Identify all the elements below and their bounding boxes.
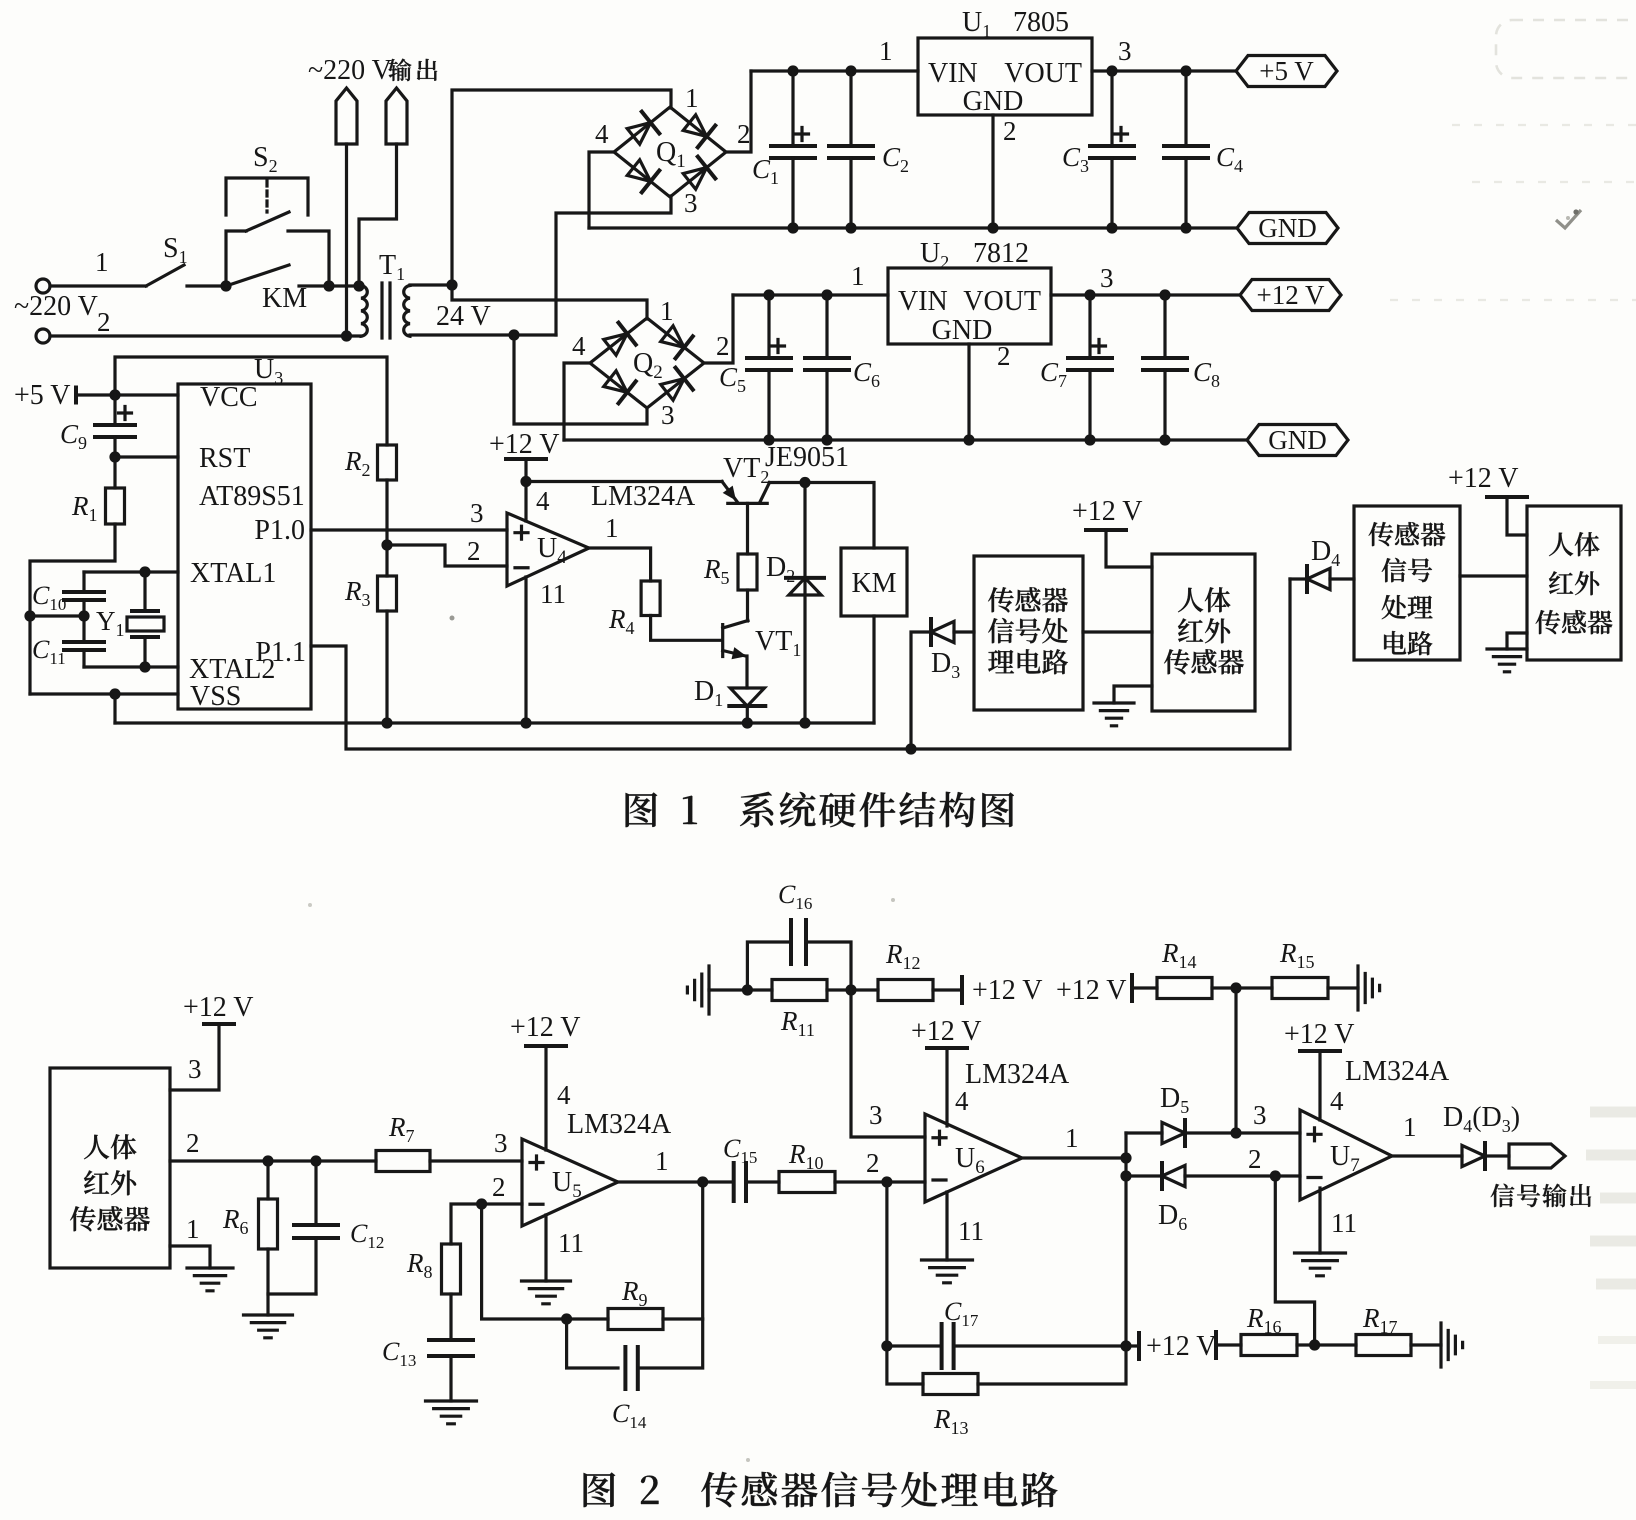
node VSS <box>109 688 120 699</box>
label pin2 U7 <box>1248 1144 1262 1174</box>
wire line2 to T1 primary <box>50 334 361 337</box>
label Y1 <box>96 606 125 640</box>
node D6 branch <box>1120 1170 1131 1181</box>
svg-text:11: 11 <box>1331 1208 1357 1238</box>
label pin3 U7 <box>1253 1100 1267 1130</box>
terminal circle 1 (~220 V line 1) <box>36 279 50 293</box>
label C2 <box>882 142 909 176</box>
diode D4(D3) output <box>1462 1143 1485 1169</box>
plug terminal 1 (~220 V output) <box>336 88 357 144</box>
wire plug2 lead <box>359 144 397 286</box>
switch S1 <box>146 233 188 286</box>
Q1 pin labels <box>595 83 751 218</box>
label LM324A U5 <box>567 1109 672 1140</box>
svg-text:GND: GND <box>1268 425 1327 455</box>
label C10 <box>32 581 66 614</box>
wire C15 to R10 <box>746 1180 779 1183</box>
wire R2 to R3 <box>385 480 388 576</box>
label D4(D3) <box>1443 1102 1520 1136</box>
label C4 <box>1216 142 1243 176</box>
wire R15 to ground <box>1328 986 1358 989</box>
resistor R8 <box>442 1244 461 1294</box>
node U5 output <box>697 1176 708 1187</box>
node R9/C14 left <box>561 1313 572 1324</box>
label C17 <box>944 1297 979 1330</box>
wire to +12V right of C17 <box>1126 1333 1139 1359</box>
wire U4 output <box>589 548 651 581</box>
node D1 gnd <box>742 717 753 728</box>
wire divider to D5 node <box>1234 988 1237 1133</box>
node D5/R14/R15 <box>1230 1127 1241 1138</box>
svg-text:3: 3 <box>494 1128 508 1158</box>
wire D6 to pin2 U7 <box>1185 1174 1300 1177</box>
svg-text:VOUT: VOUT <box>1004 58 1082 89</box>
svg-text:2: 2 <box>467 536 481 566</box>
node C8 top <box>1159 289 1170 300</box>
+12V supply for U4/VT2 <box>489 429 560 460</box>
wire plug1 lead <box>345 144 348 336</box>
svg-text:3: 3 <box>188 1054 202 1084</box>
switch S2 blade <box>246 212 289 231</box>
svg-text:2: 2 <box>866 1148 880 1178</box>
node C16/R11 left <box>742 984 753 995</box>
node C17/R13 pin2 vertical <box>881 1340 892 1351</box>
label pin2 U1 <box>1003 116 1017 146</box>
wire XTAL1 line <box>84 570 178 573</box>
capacitor C17 <box>887 1324 1126 1368</box>
capacitor C11 <box>64 642 104 667</box>
wire U1 gnd pin2 <box>991 115 994 228</box>
resistor R13 <box>923 1374 978 1395</box>
svg-text:+5 V: +5 V <box>1259 56 1314 86</box>
svg-text:VSS: VSS <box>190 681 241 712</box>
wire KM contact to T1 <box>299 284 363 287</box>
label R12 <box>885 939 921 973</box>
capacitor C5 <box>747 295 791 440</box>
label pin1 U6 <box>1065 1123 1079 1153</box>
vin rail row1 <box>751 69 918 72</box>
svg-text:+12 V: +12 V <box>1257 280 1325 310</box>
svg-text:+12 V: +12 V <box>1146 1331 1217 1362</box>
label KM <box>262 283 307 314</box>
label pin2 U2 <box>997 341 1011 371</box>
node R2/R3 to pin2 <box>381 539 392 550</box>
ground sensor B <box>1094 703 1134 726</box>
label pin11 U6 <box>958 1216 984 1246</box>
node XTAL1/Y1 <box>139 566 150 577</box>
Q2 pin labels <box>572 296 730 430</box>
wire C to D <box>1460 574 1527 577</box>
node C17 right <box>1120 1340 1131 1351</box>
node C7 top <box>1084 289 1095 300</box>
diode D4 <box>1290 566 1330 592</box>
+12V supply for U6 <box>911 1016 982 1048</box>
label D4 <box>1311 536 1340 570</box>
resistor R4 <box>641 581 660 616</box>
op-amp U7 <box>1300 1110 1392 1200</box>
svg-text:+12 V: +12 V <box>183 992 254 1023</box>
svg-text:GND: GND <box>963 86 1024 117</box>
capacitor C1 <box>771 71 815 228</box>
node C9 bottom / RST <box>109 451 120 462</box>
wire D5 to pin3 node <box>1185 1131 1300 1134</box>
block human infrared sensor E <box>50 1068 170 1268</box>
label pin3 E <box>188 1054 202 1084</box>
svg-text:11: 11 <box>958 1216 984 1246</box>
node C4 top <box>1180 65 1191 76</box>
wire box B to ground <box>1114 686 1152 703</box>
wire gnd to R11 <box>709 988 772 991</box>
scan ghost right margin fig2 <box>1586 1112 1636 1385</box>
label R4 <box>608 604 635 638</box>
+12V supply for sensor B <box>1072 496 1143 530</box>
label R9 <box>621 1276 648 1310</box>
diode D1 <box>729 688 765 706</box>
wire +5V to VCC <box>76 393 178 396</box>
label D6 <box>1158 1200 1187 1234</box>
svg-text:2: 2 <box>97 307 111 337</box>
svg-text:4: 4 <box>536 486 550 516</box>
label VT1 <box>755 626 801 660</box>
wire U5 output <box>618 1180 733 1183</box>
crystal Y1 <box>127 572 164 667</box>
flag +5 V <box>1236 56 1337 87</box>
svg-text:~220 V: ~220 V <box>14 291 98 322</box>
svg-text:XTAL1: XTAL1 <box>190 558 276 589</box>
output flag <box>1509 1144 1565 1168</box>
capacitor C3 <box>1090 71 1134 228</box>
relay coil KM box <box>841 548 907 616</box>
svg-text:VOUT: VOUT <box>963 286 1041 317</box>
svg-text:3: 3 <box>1118 36 1132 66</box>
svg-text:3: 3 <box>661 400 675 430</box>
label ~220 V <box>14 291 111 337</box>
svg-text:3: 3 <box>1253 1100 1267 1130</box>
wire S1 to node <box>187 284 226 287</box>
wire VT1 collector to R5 <box>746 590 749 621</box>
+12V supply for U5 <box>510 1012 581 1046</box>
node U4 pin11 gnd <box>520 717 531 728</box>
svg-text:+12 V: +12 V <box>1284 1019 1355 1050</box>
wire Q2 pin4 to gnd rail2 <box>564 363 591 440</box>
label pin3 U5 <box>494 1128 508 1158</box>
label pin1 E <box>186 1214 200 1244</box>
node R16 feedback <box>1270 1170 1281 1181</box>
label pin11 U7 <box>1331 1208 1357 1238</box>
capacitor C15 <box>734 1163 746 1201</box>
label pin3 U4 <box>470 498 484 528</box>
scan speckles <box>308 216 1570 1462</box>
label pin2 U6 <box>866 1148 880 1178</box>
label D2 <box>766 552 795 586</box>
label C6 <box>853 357 880 391</box>
svg-text:VIN: VIN <box>928 58 978 89</box>
svg-text:7812: 7812 <box>973 238 1029 269</box>
wire +12V to VT2 emitter <box>526 480 722 483</box>
svg-text:LM324A: LM324A <box>567 1109 672 1140</box>
node D2 gnd <box>799 717 810 728</box>
wire AC2 to Q1 pin3 <box>556 196 671 335</box>
label R2 <box>344 446 371 480</box>
wire U5 pin2 <box>451 1204 522 1244</box>
svg-text:JE9051: JE9051 <box>765 442 849 473</box>
wire A to B <box>1083 630 1152 633</box>
label 24 V <box>436 301 491 332</box>
label U2 7812 <box>920 238 1029 272</box>
wire over U3 top to R2 <box>115 357 387 445</box>
label C15 <box>723 1134 757 1167</box>
label pin4 U5 <box>557 1080 571 1110</box>
svg-text:AT89S51: AT89S51 <box>199 481 305 512</box>
wire R8 to C13 <box>449 1294 452 1340</box>
node C16/R12 junction <box>845 984 856 995</box>
svg-text:3: 3 <box>869 1100 883 1130</box>
label pin1 U4 <box>605 513 619 543</box>
ground U7 pin11 <box>1295 1253 1346 1276</box>
ground right of R15 <box>1358 966 1380 1010</box>
svg-text:1: 1 <box>186 1214 200 1244</box>
label C7 <box>1040 357 1067 391</box>
svg-text:2: 2 <box>1248 1144 1262 1174</box>
wire XTAL2 line <box>84 665 178 668</box>
resistor R6 <box>259 1161 278 1315</box>
label C5 <box>719 362 746 396</box>
flag GND row2 <box>1247 425 1348 456</box>
label pin1 U2 <box>851 261 865 291</box>
node S2 branch right <box>323 280 334 291</box>
capacitor C12 <box>294 1161 338 1294</box>
wire C14 loop <box>567 1319 618 1368</box>
node secondary bottom branch <box>508 329 519 340</box>
caption figure 1 <box>626 792 1014 828</box>
svg-text:7805: 7805 <box>1013 7 1069 38</box>
node C5 bottom <box>763 434 774 445</box>
node U2 gnd <box>963 434 974 445</box>
label +12V right of R12 <box>972 975 1043 1006</box>
label JE9051 <box>765 442 849 473</box>
svg-text:2: 2 <box>492 1172 506 1202</box>
capacitor C13 <box>429 1340 473 1401</box>
svg-text:1: 1 <box>655 1146 669 1176</box>
node R16/R17 <box>1309 1339 1320 1350</box>
wire C12 to R6 gnd <box>268 1292 316 1295</box>
svg-text:3: 3 <box>684 188 698 218</box>
wire S2 right lead <box>288 231 329 286</box>
terminal +5 V input <box>14 380 76 411</box>
resistor R17 <box>1356 1335 1411 1356</box>
wire R16 feedback jog <box>1275 1176 1314 1345</box>
label pin1 U5 <box>655 1146 669 1176</box>
svg-text:4: 4 <box>595 119 609 149</box>
ground sensor D <box>1487 649 1527 672</box>
svg-text:1: 1 <box>660 296 674 326</box>
label LM324A U4 <box>591 481 696 512</box>
diode D2 <box>786 578 824 595</box>
label R3 <box>344 576 371 610</box>
wire R10 to U6 pin2 <box>835 1180 925 1183</box>
wire node to U6 pin3 <box>851 990 925 1137</box>
label pin4 U4 <box>536 486 550 516</box>
wire Q1 pin2 to vin rail <box>726 71 751 152</box>
wire R14 to R15 <box>1212 986 1272 989</box>
node U1 gnd <box>987 222 998 233</box>
label D1 <box>694 676 723 710</box>
wire Q2 pin2 to vin rail2 <box>704 295 733 363</box>
op-amp U5 <box>522 1139 618 1226</box>
label LM324A U6 <box>965 1059 1070 1090</box>
label ~220 V 输出 <box>308 55 437 86</box>
wire U7 pin4 <box>1318 1051 1321 1120</box>
node C7 bottom <box>1084 434 1095 445</box>
gnd rail row2 <box>564 438 1247 441</box>
node C2 top <box>845 65 856 76</box>
switch S2 actuator bracket <box>226 178 308 215</box>
svg-text:+12 V: +12 V <box>911 1016 982 1047</box>
label R11 <box>780 1006 815 1040</box>
label R6 <box>222 1204 249 1238</box>
+12V supply for sensor D <box>1448 463 1527 497</box>
label C8 <box>1193 357 1220 391</box>
capacitor C4 <box>1164 71 1208 228</box>
op-amp U4 <box>507 513 589 586</box>
label U3 <box>254 354 283 388</box>
svg-text:2: 2 <box>997 341 1011 371</box>
flag GND row1 <box>1237 213 1338 244</box>
block human infrared sensor B <box>1152 554 1255 711</box>
label D3 <box>931 648 960 682</box>
label R17 <box>1362 1303 1398 1337</box>
resistor R11 <box>772 980 827 1001</box>
label pin2 E <box>186 1128 200 1158</box>
label pin4 U7 <box>1330 1086 1344 1116</box>
svg-text:+5 V: +5 V <box>14 380 71 411</box>
wire R12 to +12V terminal <box>933 977 962 1003</box>
resistor R15 <box>1272 978 1328 999</box>
wire VT1 emitter to D1 <box>745 656 748 688</box>
capacitor C10 <box>64 572 104 642</box>
relay contact KM blade <box>226 265 289 286</box>
label signal output <box>1491 1184 1591 1208</box>
regulator U2 7812 box <box>888 268 1051 346</box>
label VT2 <box>723 453 769 487</box>
label R15 <box>1279 938 1315 972</box>
label C1 <box>752 154 779 188</box>
capacitor C16 loop <box>747 920 851 990</box>
svg-text:3: 3 <box>470 498 484 528</box>
svg-text:11: 11 <box>558 1228 584 1258</box>
capacitor C8 <box>1143 295 1187 440</box>
wire U1 vout to +5V flag <box>1092 69 1236 72</box>
resistor R12 <box>878 980 933 1001</box>
label R1 <box>71 491 98 525</box>
ground sensor E pin1 <box>187 1268 233 1291</box>
label pin4 U6 <box>955 1086 969 1116</box>
label pin11 U5 <box>558 1228 584 1258</box>
block sensor signal processing A <box>974 556 1083 710</box>
resistor R16 <box>1241 1335 1297 1356</box>
caption figure 2 <box>584 1472 1058 1508</box>
svg-text:P1.0: P1.0 <box>254 515 305 546</box>
node C3 top <box>1106 65 1117 76</box>
label 1 (line 1) <box>95 247 109 277</box>
label C12 <box>350 1219 384 1252</box>
wire U6 pin4 <box>945 1048 948 1126</box>
label U1 7805 <box>962 7 1069 41</box>
svg-text:+12 V: +12 V <box>1056 975 1127 1006</box>
label R14 <box>1161 938 1197 972</box>
node C1 top <box>787 65 798 76</box>
wire R17 to ground <box>1411 1343 1441 1346</box>
capacitor C7 <box>1068 295 1112 440</box>
label T1 <box>379 250 405 284</box>
svg-text:KM: KM <box>262 283 307 314</box>
bridge rectifier Q1 <box>614 107 726 197</box>
flag +12 V <box>1240 280 1341 311</box>
wire pin3 to +12V <box>170 1025 219 1090</box>
wire T1 secondary top lead <box>410 283 452 286</box>
ground C13 <box>426 1401 477 1424</box>
wire AC2 to Q2 pin3 <box>514 335 647 424</box>
transistor VT2 JE9051 <box>722 482 770 504</box>
resistor R1 <box>30 457 125 694</box>
op-amp U6 <box>925 1114 1022 1202</box>
wire D4 to output flag <box>1485 1154 1509 1157</box>
node U6 pin2 <box>881 1176 892 1187</box>
wire pin1 to ground <box>170 1246 210 1268</box>
wire line1 to S1 <box>50 284 146 287</box>
label C9 <box>60 419 87 453</box>
node S1 output <box>220 280 231 291</box>
wire U4 pin11 to gnd <box>524 577 527 723</box>
wire U5 pin11 to gnd <box>544 1215 547 1281</box>
node +5V/C9 <box>109 389 120 400</box>
wire D6 left lead <box>1126 1174 1162 1177</box>
label R10 <box>788 1139 824 1173</box>
wire KM bottom to gnd rail <box>872 616 875 723</box>
ground U5 pin11 <box>522 1281 571 1304</box>
wire R5 to VT2 base <box>746 503 749 554</box>
wire R7 to U5 pin3 <box>430 1159 522 1162</box>
svg-text:2: 2 <box>1003 116 1017 146</box>
label pin2 U5 <box>492 1172 506 1202</box>
node U6 output <box>1120 1152 1131 1163</box>
resistor R7 <box>376 1151 430 1172</box>
label C3 <box>1062 142 1089 176</box>
label pin11 U4 <box>540 579 566 609</box>
ground left of R11 <box>687 966 709 1014</box>
svg-text:~220 V: ~220 V <box>308 55 392 86</box>
wire +12V down <box>524 459 527 521</box>
wire R3 to gnd rail <box>385 611 388 723</box>
MCU U3 AT89S51 box <box>178 382 311 712</box>
wire P1.1 long wire <box>311 579 1290 749</box>
+12V terminal left of R16 <box>1146 1331 1217 1362</box>
regulator U1 7805 box <box>918 38 1092 117</box>
wire feedback down <box>482 1204 608 1319</box>
svg-text:LM324A: LM324A <box>965 1059 1070 1090</box>
label pin1 U7 <box>1403 1112 1417 1142</box>
resistor R5 <box>738 554 757 590</box>
svg-text:1: 1 <box>1403 1112 1417 1142</box>
node T1 secondary top <box>446 279 457 290</box>
+12V terminal left of R14 <box>1056 975 1132 1006</box>
svg-text:KM: KM <box>851 568 896 599</box>
wire pin2 node down <box>885 1182 888 1346</box>
resistor R9 <box>608 1309 663 1330</box>
node R3 gnd <box>381 717 392 728</box>
wire D3 to box A <box>954 630 974 633</box>
svg-text:24 V: 24 V <box>436 301 491 332</box>
